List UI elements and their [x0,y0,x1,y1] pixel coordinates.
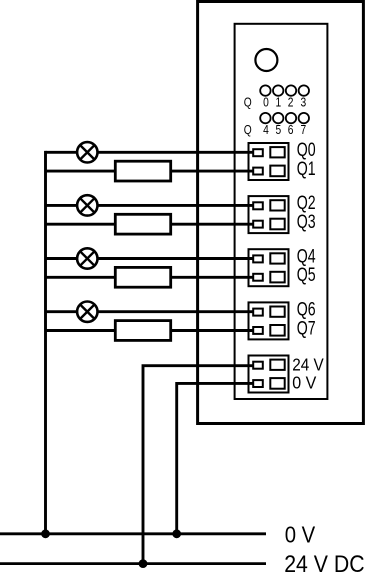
terminal block X2 (Q2/Q3) [249,196,289,233]
svg-text:Q7: Q7 [297,317,316,339]
svg-text:24 V DC: 24 V DC [284,550,364,578]
terminal block X5 (24V/0V) [249,356,289,393]
label row Q 0 1 2 3 [244,97,306,110]
svg-text:1: 1 [275,97,281,110]
PLC output module U1 outer housing [198,2,364,424]
junction node: terminal 24V drop to 24 V DC rail [139,559,148,568]
24 V DC supply rail [0,562,266,565]
svg-text:4: 4 [263,124,269,137]
svg-text:Q: Q [244,124,252,137]
wire Q5 load line [46,276,255,279]
junction node: terminal 0V drop to 0 V rail [172,529,181,538]
terminal block X3 (Q4/Q5) [249,249,289,286]
wire 0V return from terminal 0V [177,383,254,533]
wire Q3 load line [46,223,255,226]
lamp H3 (indicator lamp on Q4) [77,248,97,268]
svg-text:2: 2 [288,97,294,110]
svg-text:Q5: Q5 [297,264,316,286]
LED indicators Q4-Q7 [260,113,309,123]
wire Q7 load line [46,329,255,332]
power/status LED (large) [255,49,277,71]
wire Q1 load line [46,170,255,173]
svg-text:0 V: 0 V [292,373,317,393]
LED indicators Q0-Q3 [260,85,309,95]
wire +24V supply to terminal 24V [143,366,254,564]
resistor R4 (load on Q7) [115,321,170,341]
resistor R1 (load on Q1) [115,161,170,181]
wire Q2 load line [46,204,255,207]
svg-text:3: 3 [300,97,306,110]
svg-text:6: 6 [288,124,294,137]
resistor R2 (load on Q3) [115,214,170,234]
svg-text:Q3: Q3 [297,211,316,233]
lamp H2 (indicator lamp on Q2) [77,195,97,215]
svg-text:7: 7 [300,124,306,137]
lamp H4 (indicator lamp on Q6) [77,302,97,322]
wire Q4 load line [46,257,255,260]
terminal block X1 (Q0/Q1) [249,143,289,180]
svg-text:Q: Q [244,97,252,110]
resistor R3 (load on Q5) [115,267,170,287]
label row Q 4 5 6 7 [244,124,306,137]
junction node: left rail to 0 V rail [41,529,50,538]
0 V supply rail [0,532,266,535]
lamp H1 (indicator lamp on Q0) [77,142,97,162]
svg-text:Q1: Q1 [297,158,316,180]
wire Q6 load line [46,310,255,313]
svg-text:0: 0 [263,97,269,110]
module U1 front face [235,24,328,399]
svg-text:5: 5 [275,124,281,137]
svg-text:0 V: 0 V [285,521,316,547]
wire 0V common vertical rail (left) [44,151,47,534]
terminal block X4 (Q6/Q7) [249,302,289,339]
wire Q0 load line [46,151,255,154]
